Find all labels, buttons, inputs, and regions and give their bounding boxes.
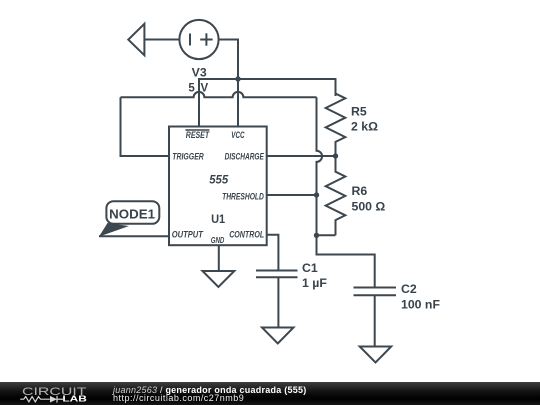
svg-text:VCC: VCC <box>231 130 244 140</box>
svg-text:1 µF: 1 µF <box>302 276 327 290</box>
svg-text:555: 555 <box>209 173 228 187</box>
svg-text:RESET: RESET <box>186 130 210 140</box>
svg-text:THRESHOLD: THRESHOLD <box>222 192 264 202</box>
svg-text:V: V <box>201 82 209 94</box>
svg-text:CONTROL: CONTROL <box>229 229 264 239</box>
svg-text:C2: C2 <box>401 282 417 296</box>
svg-text:LAB: LAB <box>62 395 87 404</box>
svg-text:R6: R6 <box>352 184 368 198</box>
svg-text:5: 5 <box>188 82 195 94</box>
svg-text:NODE1: NODE1 <box>109 208 155 222</box>
svg-text:2 kΩ: 2 kΩ <box>351 120 378 134</box>
svg-text:TRIGGER: TRIGGER <box>172 152 204 162</box>
svg-text:DISCHARGE: DISCHARGE <box>225 152 265 162</box>
svg-text:100 nF: 100 nF <box>401 298 440 312</box>
svg-text:OUTPUT: OUTPUT <box>172 230 204 240</box>
svg-text:500 Ω: 500 Ω <box>352 199 386 213</box>
svg-text:R5: R5 <box>351 105 367 119</box>
svg-text:C1: C1 <box>302 261 318 275</box>
svg-text:GND: GND <box>211 236 225 245</box>
svg-text:V3: V3 <box>192 68 207 80</box>
svg-text:U1: U1 <box>211 212 225 226</box>
